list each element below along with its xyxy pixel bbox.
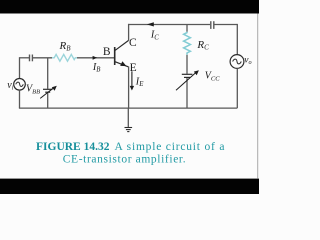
wire: right output branch lower — [236, 68, 238, 108]
wire: input top-left horizontal segment — [20, 57, 30, 59]
wire: left source branch upper — [19, 57, 21, 78]
resistor RB — [52, 54, 77, 61]
ground stub wire — [127, 108, 129, 127]
wire: right output branch upper — [236, 24, 238, 55]
svg-text:B: B — [103, 46, 111, 58]
svg-text:FIGURE 14.32 A simple circuit: FIGURE 14.32 A simple circuit of a — [36, 141, 225, 153]
battery VBB long plate — [43, 88, 52, 90]
top letterbox bar — [0, 0, 259, 14]
right edge frame line — [257, 14, 259, 179]
transistor Q1 emitter arrowhead — [120, 61, 126, 66]
battery VCC short plate — [184, 76, 190, 78]
wire: left source branch lower — [19, 90, 21, 108]
arrow IE (beside emitter wire, pointing down) — [131, 71, 133, 87]
transistor Q1 emitter diagonal — [115, 62, 129, 67]
svg-text:CE-transistor amplifier.: CE-transistor amplifier. — [63, 153, 186, 165]
wire: RB to base bar with IB arrow — [77, 57, 115, 59]
wire: VCC branch lower — [186, 78, 188, 108]
transistor Q1 base bar — [114, 47, 116, 65]
wire: emitter vertical — [128, 67, 130, 109]
arrow through battery VBB (variable) — [40, 88, 53, 98]
wire: VBB branch vertical upper — [47, 58, 49, 89]
wire: capacitor to node A (VBB branch top) to RB — [33, 57, 52, 59]
capacitor C-out left plate — [210, 21, 212, 29]
caption — [36, 141, 225, 165]
capacitor C-in right plate — [31, 55, 33, 62]
arrow through battery VCC (variable) — [176, 73, 196, 91]
arrow IB (on base wire, pointing right) — [93, 56, 98, 60]
svg-text:E: E — [130, 62, 137, 74]
transistor Q1 collector diagonal — [115, 40, 129, 50]
resistor RC — [184, 32, 191, 55]
svg-text:C: C — [129, 37, 137, 49]
AC meter vo circle — [230, 55, 244, 69]
arrow IC (on top rail, pointing left) — [147, 22, 154, 26]
wire: VBB branch vertical lower — [47, 93, 49, 108]
battery VBB short plate — [45, 91, 50, 93]
wire: RC to VCC battery — [186, 55, 188, 74]
wire: top rail right of capacitor — [214, 24, 237, 26]
bottom letterbox bar — [0, 179, 259, 194]
capacitor C-out right plate — [213, 21, 215, 29]
sine wave inside vi — [16, 82, 24, 86]
wire: collector vertical — [128, 24, 130, 41]
wire: RC branch top stub — [186, 25, 188, 32]
battery VCC long plate — [182, 73, 193, 75]
wire: bottom rail — [19, 107, 237, 109]
ground symbol — [125, 128, 133, 132]
capacitor C-in left plate — [29, 55, 31, 62]
wire: top rail left of capacitor — [128, 24, 210, 26]
AC source vi circle — [14, 79, 26, 91]
sine wave inside vo — [233, 59, 242, 64]
